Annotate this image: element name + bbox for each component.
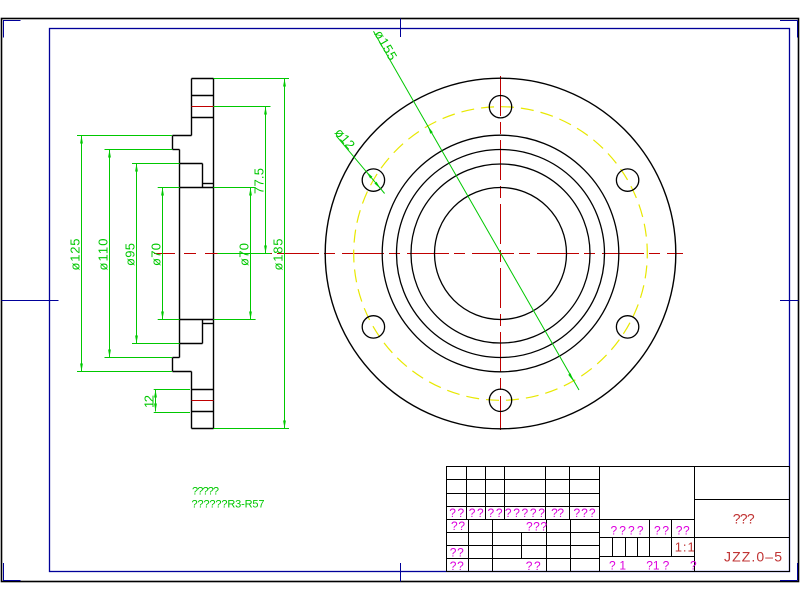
corner mark bottom-right xyxy=(780,563,798,581)
note line 2 xyxy=(192,499,265,511)
svg-text:???: ??? xyxy=(526,520,547,534)
hub left wall xyxy=(179,150,181,358)
step face top xyxy=(172,136,174,150)
step shoulder top xyxy=(173,135,192,137)
bolt hole centerline bottom (red) xyxy=(192,400,214,402)
bolt hole 2 xyxy=(362,169,384,191)
bolt hole 6 xyxy=(616,169,638,191)
bolt hole edge top-1 xyxy=(192,95,214,97)
counterbore wall bottom xyxy=(202,320,204,344)
svg-text:??: ?? xyxy=(469,506,484,520)
bolt hole 1 xyxy=(489,96,511,118)
bolt hole 3 xyxy=(362,316,384,338)
bore line top xyxy=(180,187,214,189)
title sheet row xyxy=(609,559,697,573)
svg-text:??: ?? xyxy=(654,524,669,538)
dimension ø110 (x=109.5) xyxy=(96,150,173,358)
dimension ø95 (x=136.5) xyxy=(123,164,180,344)
dimension ø70 right xyxy=(214,188,256,320)
svg-text:??: ?? xyxy=(449,506,464,520)
svg-text:???: ??? xyxy=(574,506,596,520)
circle d110 xyxy=(397,150,605,358)
step shoulder bottom xyxy=(173,371,192,373)
horizontal centerline circle view (red dashed) xyxy=(277,253,683,255)
circle d125 xyxy=(382,135,619,372)
svg-text:ø185: ø185 xyxy=(271,237,286,271)
center tick top xyxy=(400,19,402,38)
svg-text:ø70: ø70 xyxy=(149,241,164,266)
svg-text:???: ??? xyxy=(733,511,755,527)
section right face xyxy=(213,79,215,429)
step face bottom xyxy=(172,358,174,372)
note line 1 xyxy=(192,486,219,498)
svg-text:?????: ????? xyxy=(192,486,219,498)
corner mark bottom-left xyxy=(3,563,21,581)
dimension ø125 (x=81.5) xyxy=(68,136,172,372)
svg-text:ø95: ø95 xyxy=(123,241,138,266)
dimension ø12 leader xyxy=(332,125,385,194)
title row4 labels xyxy=(449,506,596,520)
corner mark top-right xyxy=(780,21,798,38)
svg-text:??: ?? xyxy=(451,519,465,533)
bore line bottom xyxy=(180,319,214,321)
counterbore shoulder top xyxy=(180,163,203,165)
title block grid xyxy=(447,467,790,572)
recess line bottom xyxy=(203,323,214,325)
section bottom edge (OD) xyxy=(192,428,214,430)
svg-text:12: 12 xyxy=(142,393,157,408)
svg-text:ø110: ø110 xyxy=(96,237,111,271)
center tick right xyxy=(780,300,799,302)
bolt hole edge bottom-2 xyxy=(192,389,214,391)
title row5 labels xyxy=(451,519,547,534)
center tick bottom xyxy=(400,563,402,582)
section flange left face bottom xyxy=(191,372,193,429)
circle d70 bore xyxy=(435,188,567,320)
drawing number JZZ.0-5 xyxy=(724,549,782,565)
part name ??? xyxy=(733,511,755,527)
svg-text:1:1: 1:1 xyxy=(675,540,695,555)
bolt circle (yellow dashed) xyxy=(354,107,648,401)
flange outer circle xyxy=(325,78,676,429)
corner mark top-left xyxy=(3,21,21,38)
svg-text:??: ?? xyxy=(526,559,541,573)
svg-text:??????R3-R57: ??????R3-R57 xyxy=(192,499,265,511)
section top edge (OD) xyxy=(192,78,214,80)
title row7 labels xyxy=(450,546,464,560)
bolt hole edge top-2 xyxy=(192,117,214,119)
svg-text:??: ?? xyxy=(450,559,464,573)
dimension 12 xyxy=(142,390,191,413)
circle d95 xyxy=(411,164,590,343)
svg-text:77.5: 77.5 xyxy=(252,166,267,194)
counterbore shoulder bottom xyxy=(180,343,203,345)
svg-text:?????: ????? xyxy=(505,506,545,520)
svg-text:????: ???? xyxy=(611,524,644,538)
bolt hole 5 xyxy=(616,316,638,338)
dimension ø70 (x=162.5) xyxy=(149,188,180,320)
dimension ø185 xyxy=(214,79,290,429)
bolt hole 4 xyxy=(489,389,511,411)
hub shoulder top xyxy=(173,149,180,151)
center tick left xyxy=(2,300,59,302)
svg-text:ø125: ø125 xyxy=(68,237,83,271)
svg-text:?: ? xyxy=(690,559,697,573)
title mid row labels xyxy=(611,524,691,538)
svg-text:JZZ.0–5: JZZ.0–5 xyxy=(724,549,782,565)
hub shoulder bottom xyxy=(173,357,180,359)
dimension ø155 diagonal xyxy=(371,28,579,390)
title row8 labels xyxy=(450,559,541,573)
svg-text:? 1: ? 1 xyxy=(609,559,626,573)
svg-text:?1 ?: ?1 ? xyxy=(646,559,669,573)
vertical centerline circle view (red dashed) xyxy=(500,76,502,430)
dimension 77.5 xyxy=(214,107,271,254)
bolt hole edge bottom-1 xyxy=(192,411,214,413)
svg-text:??: ?? xyxy=(676,524,690,538)
svg-text:??: ?? xyxy=(488,506,503,520)
section flange left face top xyxy=(191,79,193,136)
scale 1:1 xyxy=(675,540,695,555)
svg-text:??: ?? xyxy=(450,546,464,560)
counterbore wall top xyxy=(202,164,204,188)
bolt hole centerline top (red) xyxy=(192,106,214,108)
horizontal centerline left view (red dashed) xyxy=(154,253,272,255)
svg-text:??: ?? xyxy=(551,506,564,520)
recess line top xyxy=(203,183,214,185)
